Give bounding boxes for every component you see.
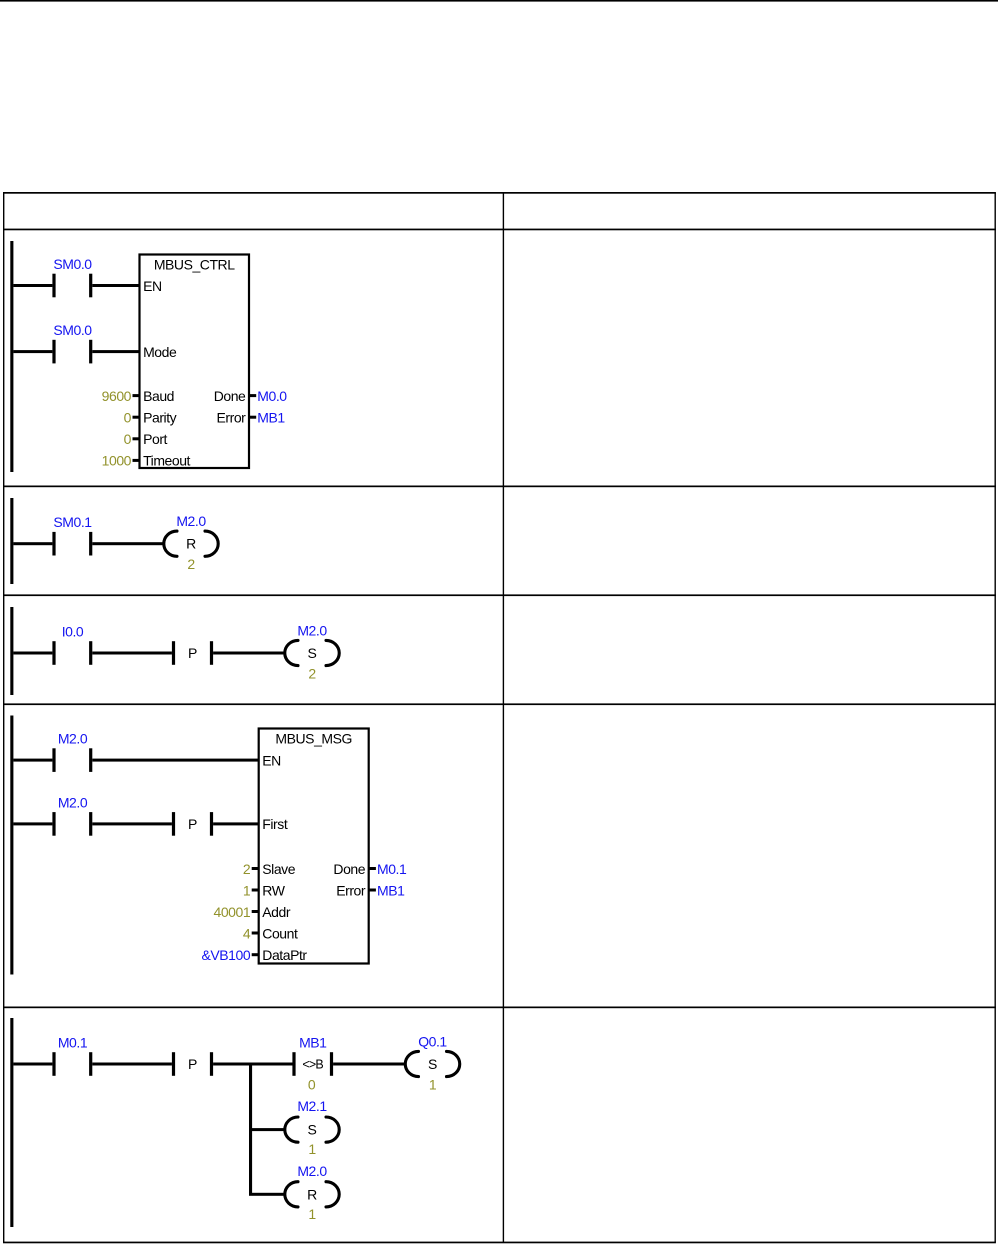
- wire SM0.0 contact to MBUS_CTRL EN pin: [92, 284, 140, 287]
- svg-text:1: 1: [308, 1206, 316, 1222]
- svg-text:MB1: MB1: [377, 882, 405, 898]
- contact SM0.0 (EN rung): [52, 256, 92, 297]
- svg-text:M2.0: M2.0: [297, 622, 327, 638]
- svg-text:S: S: [308, 645, 317, 661]
- positive edge contact P (network 3): [172, 641, 213, 665]
- wire SM0.1 contact to R coil: [92, 542, 163, 545]
- wire M2.0 contact to MBUS_MSG EN pin: [92, 759, 259, 762]
- svg-text:RW: RW: [262, 882, 285, 898]
- wire rail to SM0.0 contact (EN rung): [13, 284, 52, 287]
- svg-text:EN: EN: [262, 752, 281, 768]
- wire rail to SM0.0 contact (Mode rung): [13, 350, 52, 353]
- svg-text:P: P: [188, 816, 197, 832]
- svg-text:M2.0: M2.0: [58, 731, 88, 747]
- branch wire to M2.0 R coil: [252, 1193, 285, 1196]
- svg-text:Done: Done: [214, 388, 246, 404]
- svg-text:S: S: [308, 1122, 317, 1138]
- wire rail to I0.0 contact: [13, 652, 52, 655]
- svg-text:SM0.1: SM0.1: [53, 514, 92, 530]
- compare contact MB1 <>B 0: [292, 1034, 333, 1092]
- contact SM0.1: [52, 514, 92, 555]
- coil S (set) M2.0, count 2: [285, 622, 339, 681]
- svg-text:R: R: [307, 1186, 317, 1202]
- wire rail to M2.0 contact (EN rung): [13, 759, 52, 762]
- network 5 left power rail: [10, 1018, 13, 1227]
- svg-text:M2.1: M2.1: [297, 1098, 327, 1114]
- svg-text:M2.0: M2.0: [297, 1163, 327, 1179]
- wire SM0.0 contact to MBUS_CTRL Mode pin: [92, 350, 140, 353]
- svg-text:0: 0: [124, 410, 132, 426]
- function block MBUS_MSG box: [259, 729, 369, 964]
- svg-text:M0.1: M0.1: [377, 861, 407, 877]
- input pin Port with value 0: [124, 431, 168, 447]
- svg-text:4: 4: [243, 925, 251, 941]
- svg-text:Baud: Baud: [143, 388, 174, 404]
- svg-text:Slave: Slave: [262, 861, 295, 877]
- svg-text:MBUS_CTRL: MBUS_CTRL: [154, 256, 235, 272]
- svg-text:40001: 40001: [214, 904, 251, 920]
- svg-text:&VB100: &VB100: [202, 947, 251, 963]
- svg-text:P: P: [188, 645, 197, 661]
- coil R (reset) M2.0, count 1: [285, 1163, 339, 1222]
- svg-text:Count: Count: [262, 925, 298, 941]
- svg-text:0: 0: [308, 1076, 316, 1092]
- wire rail to M2.0 contact (First rung): [13, 822, 52, 825]
- wire M2.0 contact to P contact (First rung): [92, 822, 172, 825]
- wire compare contact to S coil Q0.1: [333, 1063, 404, 1066]
- svg-text:Q0.1: Q0.1: [418, 1033, 447, 1049]
- input pin DataPtr with value &VB100: [202, 947, 308, 963]
- svg-text:First: First: [262, 816, 288, 832]
- svg-text:Port: Port: [143, 431, 167, 447]
- output pin Done to operand M0.1 (MBUS_MSG): [333, 861, 407, 877]
- contact I0.0: [52, 623, 92, 664]
- network 2 left power rail: [10, 498, 13, 584]
- svg-text:I0.0: I0.0: [62, 623, 84, 639]
- network 3 left power rail: [10, 607, 13, 695]
- svg-text:DataPtr: DataPtr: [262, 947, 307, 963]
- positive edge contact P (network 5): [172, 1052, 213, 1076]
- input pin Timeout with value 1000: [102, 453, 191, 469]
- svg-text:9600: 9600: [102, 388, 132, 404]
- svg-text:1: 1: [308, 1141, 316, 1157]
- svg-text:SM0.0: SM0.0: [53, 256, 92, 272]
- network 1 left power rail: [10, 241, 13, 472]
- svg-text:0: 0: [124, 431, 132, 447]
- svg-text:1000: 1000: [102, 453, 132, 469]
- output pin Error to operand MB1 (MBUS_MSG): [336, 882, 405, 898]
- svg-text:M0.0: M0.0: [257, 388, 287, 404]
- branch wire to M2.1 S coil: [252, 1128, 285, 1131]
- svg-text:2: 2: [308, 665, 316, 681]
- wire P contact to MBUS_MSG First pin: [213, 822, 259, 825]
- network 4 left power rail: [10, 716, 13, 975]
- wire P contact to S coil: [213, 652, 284, 655]
- contact M2.0 (First rung): [52, 794, 92, 835]
- coil R (reset) M2.0, count 2: [164, 513, 218, 572]
- wire M0.1 contact to P contact: [92, 1063, 172, 1066]
- contact M0.1: [52, 1034, 92, 1075]
- contact SM0.0 (Mode rung): [52, 322, 92, 363]
- output pin Error to operand MB1: [217, 410, 286, 426]
- input pin Count with value 4: [243, 925, 298, 941]
- input pin Addr with value 40001: [214, 904, 291, 920]
- svg-text:P: P: [188, 1056, 197, 1072]
- coil S (set) M2.1, count 1: [285, 1098, 339, 1157]
- svg-text:1: 1: [429, 1076, 437, 1092]
- svg-text:1: 1: [243, 882, 251, 898]
- svg-text:SM0.0: SM0.0: [53, 322, 92, 338]
- wire I0.0 contact to P contact: [92, 652, 172, 655]
- svg-text:Done: Done: [333, 861, 365, 877]
- svg-text:M2.0: M2.0: [176, 513, 206, 529]
- coil S (set) Q0.1, count 1: [405, 1033, 459, 1092]
- svg-text:M2.0: M2.0: [58, 794, 88, 810]
- positive edge contact P (network 4): [172, 812, 213, 836]
- wire rail to SM0.1 contact: [13, 542, 52, 545]
- svg-text:R: R: [186, 536, 196, 552]
- svg-text:Addr: Addr: [262, 904, 291, 920]
- branch junction vertical wire: [249, 1063, 252, 1196]
- input pin RW with value 1: [243, 882, 286, 898]
- input pin Parity with value 0: [124, 410, 177, 426]
- output pin Done to operand M0.0: [214, 388, 288, 404]
- svg-text:Mode: Mode: [143, 344, 177, 360]
- svg-text:2: 2: [243, 861, 251, 877]
- svg-text:S: S: [428, 1056, 437, 1072]
- svg-text:Timeout: Timeout: [143, 453, 190, 469]
- svg-text:Error: Error: [217, 410, 247, 426]
- svg-text:2: 2: [187, 556, 195, 572]
- input pin Baud with value 9600: [102, 388, 174, 404]
- svg-text:EN: EN: [143, 278, 162, 294]
- wire rail to M0.1 contact: [13, 1063, 52, 1066]
- function block MBUS_CTRL box: [140, 255, 250, 469]
- contact M2.0 (EN rung): [52, 731, 92, 772]
- svg-text:MB1: MB1: [299, 1034, 327, 1050]
- svg-text:<>B: <>B: [302, 1058, 323, 1072]
- wire P contact to branch junction and MB1 compare contact: [213, 1063, 292, 1066]
- svg-text:Parity: Parity: [143, 410, 177, 426]
- input pin Slave with value 2: [243, 861, 296, 877]
- svg-text:MBUS_MSG: MBUS_MSG: [275, 730, 352, 746]
- svg-text:MB1: MB1: [257, 410, 285, 426]
- svg-text:Error: Error: [336, 882, 366, 898]
- svg-text:M0.1: M0.1: [58, 1034, 88, 1050]
- page top rule: [0, 0, 998, 2]
